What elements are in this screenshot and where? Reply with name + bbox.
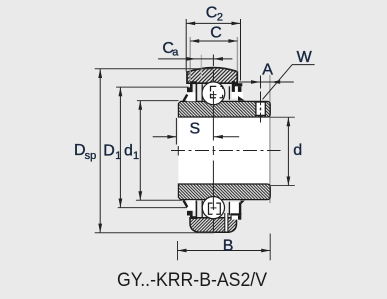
svg-text:B: B	[223, 238, 234, 255]
ball top	[202, 82, 225, 105]
seal top-left	[187, 92, 196, 101]
inner ring top band	[178, 101, 270, 117]
ball top center tick	[211, 94, 217, 96]
ball bottom center tick	[211, 207, 217, 209]
dimension S	[175, 118, 177, 145]
ball bottom	[202, 197, 224, 219]
svg-text:a: a	[172, 46, 179, 58]
dimension C	[190, 40, 237, 42]
seal top-right	[232, 92, 243, 99]
centerline bearing axis vertical	[212, 55, 214, 232]
extension line Ca grey	[200, 55, 202, 78]
svg-text:d: d	[124, 142, 133, 159]
dimension Ca	[158, 58, 213, 60]
svg-text:A: A	[262, 62, 273, 79]
cage marks top	[211, 86, 223, 97]
dimension d1	[137, 100, 179, 102]
svg-text:sp: sp	[85, 150, 97, 162]
svg-text:2: 2	[217, 11, 223, 23]
svg-text:d: d	[293, 142, 302, 159]
centerline set screw axis	[260, 76, 262, 123]
seal bottom-right	[230, 202, 239, 213]
svg-text:W: W	[297, 49, 313, 66]
svg-text:1: 1	[133, 150, 139, 162]
svg-text:D: D	[103, 142, 115, 159]
outer ring top	[187, 68, 237, 84]
centerline shaft axis horizontal	[171, 150, 281, 152]
extension-face extended line (grey, behind rings)	[269, 75, 271, 203]
set screw W in inner ring extension	[256, 102, 265, 115]
dimension D1	[116, 86, 188, 88]
extension line C left grey	[189, 37, 191, 81]
dimension d	[269, 116, 295, 118]
extension line C right grey	[236, 37, 238, 72]
centerline cross tick at bore edge	[177, 146, 179, 156]
W leader	[263, 65, 315, 100]
seal bottom-left	[187, 200, 196, 211]
cage marks bottom	[209, 203, 221, 214]
svg-text:S: S	[190, 121, 201, 138]
dimension A	[239, 81, 294, 83]
dimension Dsp	[95, 68, 214, 70]
lube slot in bottom outer ring	[225, 213, 228, 231]
svg-text:GY..-KRR-B-AS2/V: GY..-KRR-B-AS2/V	[117, 269, 267, 291]
bore (shaft seat) white area	[178, 117, 270, 184]
svg-text:C: C	[206, 5, 218, 22]
svg-text:1: 1	[115, 150, 121, 162]
svg-text:C: C	[210, 25, 222, 42]
inner ring bottom band	[178, 184, 270, 200]
dimension C2	[186, 19, 240, 81]
outer ring bottom	[190, 218, 237, 233]
dimension B	[177, 241, 179, 260]
